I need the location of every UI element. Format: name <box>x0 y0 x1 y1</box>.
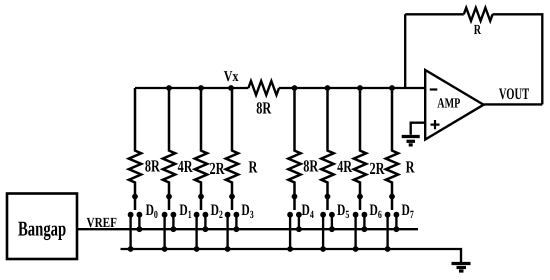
wire VREF bus <box>77 228 418 230</box>
ground (op-amp plus input) <box>402 135 420 138</box>
wire VOUT output <box>484 103 543 105</box>
svg-text:VOUT: VOUT <box>499 86 530 103</box>
resistor 2R bit6 column <box>354 88 366 210</box>
switch D0 throw wires <box>131 215 140 249</box>
resistor 8R series (Vx node) <box>248 81 279 95</box>
svg-text:Bangap: Bangap <box>18 216 66 240</box>
resistor R feedback <box>464 8 493 21</box>
svg-text:D7: D7 <box>402 202 415 221</box>
svg-text:2R: 2R <box>370 159 385 178</box>
node dots on ground bus <box>128 246 134 252</box>
svg-text:R: R <box>249 158 258 177</box>
svg-text:D6: D6 <box>370 202 383 221</box>
svg-text:8R: 8R <box>303 157 318 176</box>
resistor 4R bit1 column <box>163 88 175 210</box>
Bangap block <box>7 194 77 260</box>
svg-text:D2: D2 <box>211 202 224 221</box>
node dots on VREF bus <box>137 226 143 232</box>
switch D6 throw wires <box>356 215 365 249</box>
wire feedback top left <box>405 13 464 15</box>
resistor 2R bit2 column <box>195 88 207 210</box>
switch D3 throw wires <box>228 215 237 249</box>
op-amp minus input sign <box>430 88 438 90</box>
svg-text:D0: D0 <box>146 202 159 221</box>
svg-text:Vx: Vx <box>224 69 239 85</box>
resistor 8R bit4 column <box>288 88 300 210</box>
resistor 4R bit5 column <box>321 88 333 210</box>
svg-text:2R: 2R <box>210 159 225 178</box>
op-amp U1 triangle <box>425 70 483 140</box>
svg-text:4R: 4R <box>337 157 352 176</box>
switch D2 throw wires <box>197 215 206 249</box>
wire feedback tap vertical <box>404 14 406 88</box>
svg-text:8R: 8R <box>256 99 271 118</box>
svg-text:D1: D1 <box>179 202 191 221</box>
node dots switch poles <box>132 194 138 200</box>
svg-text:D5: D5 <box>337 202 350 221</box>
svg-text:8R: 8R <box>145 157 160 176</box>
svg-text:R: R <box>474 23 482 38</box>
switch D7 throw wires <box>388 215 397 249</box>
resistor R bit7 column <box>386 88 398 210</box>
resistor 8R bit0 column <box>129 88 141 210</box>
node dots top bus <box>166 85 172 91</box>
svg-text:VREF: VREF <box>87 216 118 231</box>
svg-text:4R: 4R <box>178 157 193 176</box>
wire top bus right segment <box>279 87 424 89</box>
svg-text:R: R <box>406 158 415 177</box>
svg-text:D4: D4 <box>302 202 315 221</box>
wire feedback top right and down <box>493 14 543 104</box>
svg-text:D3: D3 <box>241 202 254 221</box>
op-amp plus input sign <box>431 120 440 129</box>
ground (bottom bus) <box>452 262 471 265</box>
node dots switch throw tops <box>128 212 134 218</box>
switch D4 throw wires <box>290 215 299 249</box>
svg-text:AMP: AMP <box>437 96 460 111</box>
resistor R bit3 column <box>226 88 238 210</box>
switch D1 throw wires <box>165 215 174 249</box>
switch D5 throw wires <box>323 215 332 249</box>
wire ground bus <box>121 249 462 263</box>
wire op-amp plus input to ground <box>411 123 426 135</box>
wire top bus left segment <box>135 87 248 89</box>
